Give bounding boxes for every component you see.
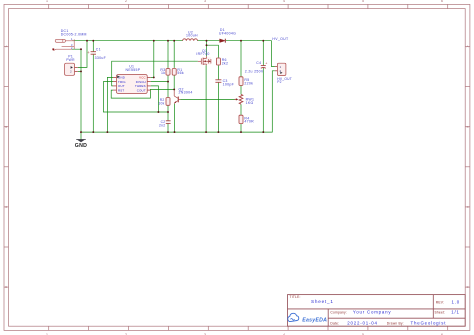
wire: Q2 emitter down (174, 104, 176, 132)
connector P2 (275, 63, 292, 84)
svg-text:Company:: Company: (330, 311, 347, 315)
resistor R3 (160, 68, 170, 76)
title block (288, 295, 466, 327)
svg-text:Date:: Date: (330, 321, 339, 325)
svg-text:2N3904: 2N3904 (179, 91, 193, 95)
wire: R5/RW1/R4 column (240, 41, 242, 132)
svg-text:EasyEDA: EasyEDA (302, 317, 327, 323)
svg-text:C: C (5, 205, 7, 209)
svg-text:220k: 220k (244, 81, 253, 85)
svg-text:TITLE:: TITLE: (290, 295, 301, 299)
svg-text:B: B (5, 125, 7, 129)
svg-text:IRF740: IRF740 (196, 52, 209, 56)
wire: 555 GND down (107, 77, 113, 132)
resistor R5 (239, 77, 253, 86)
wire: R1 column / Q2 collector node (173, 41, 175, 90)
transistor Q2 (2N3904) (174, 87, 192, 104)
wire: Q1 drain / branch to R6 (206, 41, 208, 57)
inductor U2 (183, 30, 198, 40)
capacitor C3 (215, 79, 234, 86)
svg-text:Sheet:: Sheet: (435, 311, 446, 315)
svg-text:HV_OUT: HV_OUT (272, 37, 289, 41)
svg-text:1/1: 1/1 (451, 310, 460, 315)
svg-text:Your Company: Your Company (353, 310, 391, 315)
svg-text:100uH: 100uH (186, 34, 198, 38)
svg-text:2.2u 250V: 2.2u 250V (245, 70, 264, 74)
svg-text:56k: 56k (177, 71, 184, 75)
resistor R4 (239, 115, 254, 123)
svg-text:D: D (467, 285, 469, 289)
svg-text:DC005-2.0MM: DC005-2.0MM (61, 33, 87, 37)
resistor R6 (216, 58, 228, 65)
svg-text:NE555P: NE555P (126, 68, 141, 72)
wire: DISCH to R3 bottom (151, 81, 168, 83)
junction dots (80, 40, 264, 133)
svg-text:UF4004G: UF4004G (219, 32, 236, 36)
svg-text:1.0: 1.0 (452, 299, 461, 304)
svg-text:A: A (5, 45, 7, 49)
wire: R3/DISCH/R2/C2 column (167, 41, 169, 132)
svg-text:C: C (467, 205, 469, 209)
wire: Q1 source down (205, 65, 207, 132)
wire: VCC up to rail (151, 41, 154, 78)
svg-text:RST: RST (118, 88, 124, 92)
wire: GND rail (81, 71, 275, 132)
wire: 555 OUT to Q1 gate (112, 61, 198, 86)
diode D1 (219, 28, 236, 43)
wire: R6 bottom to C3 to gnd (217, 65, 219, 132)
svg-text:2n2: 2n2 (159, 123, 165, 127)
ground symbol GND (75, 132, 87, 149)
svg-text:COUT: COUT (137, 88, 146, 92)
wire: Q2 base to pot wiper (181, 98, 235, 100)
capacitor C2 (159, 120, 171, 128)
svg-text:1k: 1k (161, 71, 165, 75)
wire: jack sleeve to x81 (72, 49, 81, 132)
svg-text:10k: 10k (158, 101, 164, 105)
svg-text:100pF: 100pF (223, 82, 234, 86)
wire: 555 TRIG loop (103, 82, 168, 112)
IC U1 (NE555P timer) (113, 65, 151, 94)
svg-text:REV:: REV: (436, 300, 444, 304)
resistor R2 (158, 98, 170, 106)
wire: P1 pin1 to rail column (78, 41, 87, 68)
svg-text:B: B (467, 125, 469, 129)
EasyEDA logo (288, 313, 327, 323)
svg-text:PWR: PWR (66, 58, 75, 62)
svg-text:1KΩ: 1KΩ (246, 101, 254, 105)
svg-text:C4: C4 (256, 61, 261, 65)
svg-text:2k2: 2k2 (222, 61, 229, 65)
svg-text:C1: C1 (96, 48, 101, 52)
capacitor C1 (87, 48, 106, 60)
wire: P1 pin2 (78, 70, 81, 72)
svg-text:2022-01-04: 2022-01-04 (347, 320, 377, 325)
connector DC1 (52, 29, 86, 51)
svg-text:A: A (467, 45, 469, 49)
wire: C4 column (262, 41, 264, 132)
wire: main +V rail (72, 41, 275, 67)
resistor R1 (172, 68, 184, 75)
svg-text:GND: GND (75, 143, 87, 149)
wire: 555 RST loop to CONT node (111, 89, 174, 98)
wire: THRES down (151, 86, 159, 112)
wire: C1 column (92, 41, 94, 52)
svg-text:D: D (5, 285, 7, 289)
svg-text:TheGeologist: TheGeologist (411, 320, 447, 325)
svg-text:Drawn By:: Drawn By: (387, 321, 404, 325)
capacitor C4 (245, 61, 268, 74)
svg-text:P2: P2 (277, 80, 282, 84)
connector P1 (65, 55, 78, 76)
svg-text:330uF: 330uF (95, 56, 106, 60)
svg-text:+: + (265, 62, 267, 66)
transistor Q1 (IRF740 MOSFET) (196, 49, 211, 65)
potentiometer RW1 (235, 94, 255, 104)
svg-text:Sheet_1: Sheet_1 (311, 299, 334, 304)
svg-text:470R: 470R (244, 120, 254, 124)
